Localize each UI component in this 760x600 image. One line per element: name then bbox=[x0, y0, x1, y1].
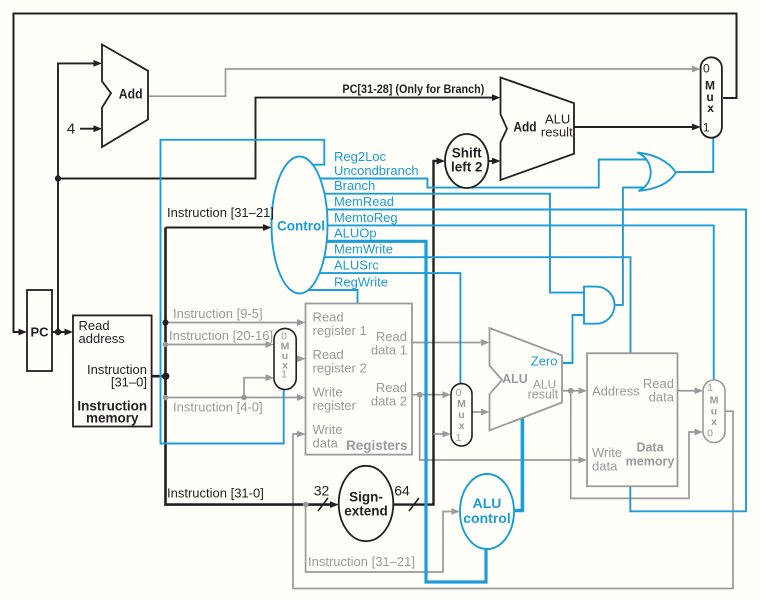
svg-text:Instruction [31–21]: Instruction [31–21] bbox=[308, 554, 415, 569]
wire: PC output to Instruction memory Read address bbox=[52, 329, 73, 336]
control wire: Zero from ALU to AND gate bottom input bbox=[562, 315, 584, 363]
shape: PC register box bbox=[27, 290, 52, 371]
control wire: ALUOp to ALU control bbox=[327, 241, 486, 582]
wire: write-back from right mux output to Registers Write data bbox=[293, 411, 733, 588]
svg-text:result: result bbox=[541, 125, 573, 140]
shape: Registers box bbox=[306, 304, 413, 455]
bit-width slash 32 bbox=[318, 498, 328, 511]
svg-text:1: 1 bbox=[707, 382, 713, 394]
svg-text:64: 64 bbox=[394, 482, 410, 498]
wire: PC to branch Add upper input bbox=[55, 94, 501, 182]
control wire: Branch to AND gate top input bbox=[325, 194, 585, 293]
wire: sign-extend output up to Shift left 2 and ALU mux input 1 bbox=[393, 158, 451, 505]
svg-text:left 2: left 2 bbox=[451, 160, 483, 175]
svg-text:Data: Data bbox=[636, 441, 664, 455]
wire: Instruction [4-0] branch up to register mux input 1 bbox=[241, 374, 274, 400]
control wire: Uncondbranch to OR gate top input bbox=[320, 160, 646, 188]
wire: ALU mux output to ALU lower input bbox=[472, 409, 490, 416]
svg-text:Uncondbranch: Uncondbranch bbox=[334, 163, 419, 178]
svg-text:data 2: data 2 bbox=[371, 394, 407, 409]
shape: top right Mux (PC source) bbox=[701, 57, 722, 138]
wire: PC feedback from top mux around top-left into PC bbox=[14, 14, 737, 336]
wire: Instruction [31-21] to ALU control bbox=[306, 505, 460, 572]
bit-width slash 64 bbox=[409, 498, 419, 511]
svg-text:ALU: ALU bbox=[473, 495, 502, 511]
svg-text:Instruction [9-5]: Instruction [9-5] bbox=[173, 306, 263, 321]
shape: right Mux (MemtoReg mux) bbox=[703, 380, 725, 443]
svg-text:result: result bbox=[528, 388, 559, 402]
wire: Instruction [20-16] to register mux input 0 bbox=[166, 341, 275, 348]
control wire: Reg2Loc to register mux select bbox=[161, 140, 325, 444]
svg-text:PC: PC bbox=[30, 324, 49, 339]
svg-text:MemtoReg: MemtoReg bbox=[334, 210, 398, 225]
wire: Instruction [4-0] to Write register bbox=[166, 394, 306, 401]
svg-text:0: 0 bbox=[703, 62, 710, 76]
svg-text:x: x bbox=[711, 416, 717, 428]
svg-text:Shift: Shift bbox=[452, 145, 482, 160]
control wire: OR gate output to top mux select bbox=[677, 137, 714, 172]
svg-text:x: x bbox=[707, 101, 714, 115]
svg-text:register 1: register 1 bbox=[313, 323, 367, 338]
svg-text:address: address bbox=[79, 331, 126, 346]
svg-text:Instruction [31–21]: Instruction [31–21] bbox=[167, 205, 274, 220]
svg-text:x: x bbox=[459, 420, 465, 432]
svg-text:data: data bbox=[649, 389, 675, 404]
wire: Data memory Read data to right mux input 1 bbox=[678, 387, 704, 394]
wire: constant 4 into Add (PC+4) bbox=[80, 125, 102, 132]
control wire: MemWrite to Data memory top bbox=[324, 257, 630, 354]
svg-text:[31–0]: [31–0] bbox=[111, 374, 147, 389]
wire: PC up to Add (PC+4) input bbox=[58, 60, 102, 332]
svg-text:ALUOp: ALUOp bbox=[334, 226, 377, 241]
svg-text:extend: extend bbox=[344, 504, 388, 519]
shape: register-number Mux (Reg2Loc mux) bbox=[274, 328, 296, 389]
wire: ALU result down to right mux input 0 bbox=[571, 391, 703, 499]
wire: Shift left 2 output to branch Add lower input bbox=[488, 158, 500, 165]
wire: branch Add ALU result to top Mux input 1 bbox=[574, 124, 701, 131]
shape: Shift left 2 ellipse bbox=[445, 134, 488, 188]
control wire: MemtoReg to right mux select bbox=[328, 225, 714, 380]
shape: Control ellipse bbox=[272, 157, 328, 294]
shape: OR gate bbox=[637, 153, 676, 191]
svg-text:Add: Add bbox=[513, 119, 536, 135]
wire: PC+4 gray result Add to top Mux input 0 bbox=[148, 66, 701, 97]
svg-text:1: 1 bbox=[456, 432, 462, 444]
svg-text:ALU: ALU bbox=[502, 372, 528, 386]
control wire: RegWrite to Registers top bbox=[308, 290, 357, 304]
wire: ALU result to Data memory Address bbox=[562, 387, 587, 394]
svg-text:control: control bbox=[463, 510, 510, 526]
svg-text:MemWrite: MemWrite bbox=[334, 242, 393, 257]
shape: Instruction memory box bbox=[73, 315, 152, 426]
svg-text:ALUSrc: ALUSrc bbox=[334, 258, 379, 273]
shape: main ALU bbox=[490, 328, 563, 431]
shape: ALU mux (ALUSrc mux) bbox=[451, 384, 472, 446]
svg-text:Instruction [20-16]: Instruction [20-16] bbox=[169, 328, 273, 343]
wire: Read data 1 to ALU upper input bbox=[412, 339, 490, 346]
svg-text:M: M bbox=[710, 395, 719, 407]
shape: Sign-extend ellipse bbox=[339, 466, 394, 541]
control wire: MemRead to Data memory bottom bbox=[327, 210, 746, 512]
svg-text:1: 1 bbox=[703, 120, 710, 134]
shape: AND gate bbox=[584, 287, 615, 324]
svg-text:RegWrite: RegWrite bbox=[334, 274, 388, 289]
svg-text:Add: Add bbox=[119, 86, 143, 102]
svg-text:register 2: register 2 bbox=[313, 361, 367, 376]
wire: Read data 2 to ALU mux input 0 bbox=[412, 391, 451, 398]
svg-text:Control: Control bbox=[277, 219, 325, 234]
svg-text:Registers: Registers bbox=[346, 438, 408, 453]
svg-text:MemRead: MemRead bbox=[334, 194, 394, 209]
wire: instruction bus from Instruction memory with branch to Control and Sign-extend bbox=[152, 224, 339, 508]
shape: Add ALU for PC+4 bbox=[102, 45, 148, 148]
svg-text:PC[31-28] (Only for Branch): PC[31-28] (Only for Branch) bbox=[342, 82, 484, 96]
svg-text:memory: memory bbox=[626, 455, 675, 469]
svg-text:Reg2Loc: Reg2Loc bbox=[334, 149, 387, 164]
svg-text:Zero: Zero bbox=[531, 353, 558, 368]
wire: Read data 2 down to Data memory Write data bbox=[420, 395, 587, 464]
svg-text:data: data bbox=[313, 436, 339, 451]
wire: register mux output to Read register 2 bbox=[296, 355, 305, 362]
svg-text:Instruction [4-0]: Instruction [4-0] bbox=[173, 399, 263, 414]
svg-text:Address: Address bbox=[592, 383, 640, 398]
control wire: ALU control output to ALU bbox=[514, 418, 522, 511]
svg-text:0: 0 bbox=[707, 428, 713, 440]
svg-text:data 1: data 1 bbox=[371, 343, 407, 358]
svg-text:Instruction [31-0]: Instruction [31-0] bbox=[167, 486, 264, 501]
wire: Instruction [9-5] to Read register 1 bbox=[166, 319, 306, 326]
svg-text:Sign-: Sign- bbox=[349, 490, 383, 505]
svg-text:4: 4 bbox=[67, 121, 75, 138]
svg-text:Branch: Branch bbox=[334, 178, 375, 193]
svg-text:register: register bbox=[313, 398, 357, 413]
shape: Data memory box bbox=[587, 353, 678, 486]
svg-text:memory: memory bbox=[86, 411, 139, 426]
shape: ALU control ellipse bbox=[460, 474, 514, 549]
control wire: ALUSrc to ALU mux select bbox=[320, 273, 461, 384]
control wire: AND gate output up to OR gate bottom input bbox=[615, 188, 646, 305]
svg-text:data: data bbox=[592, 459, 618, 474]
shape: branch Add ALU bbox=[501, 78, 575, 181]
svg-text:32: 32 bbox=[314, 482, 330, 498]
svg-text:1: 1 bbox=[281, 369, 287, 381]
